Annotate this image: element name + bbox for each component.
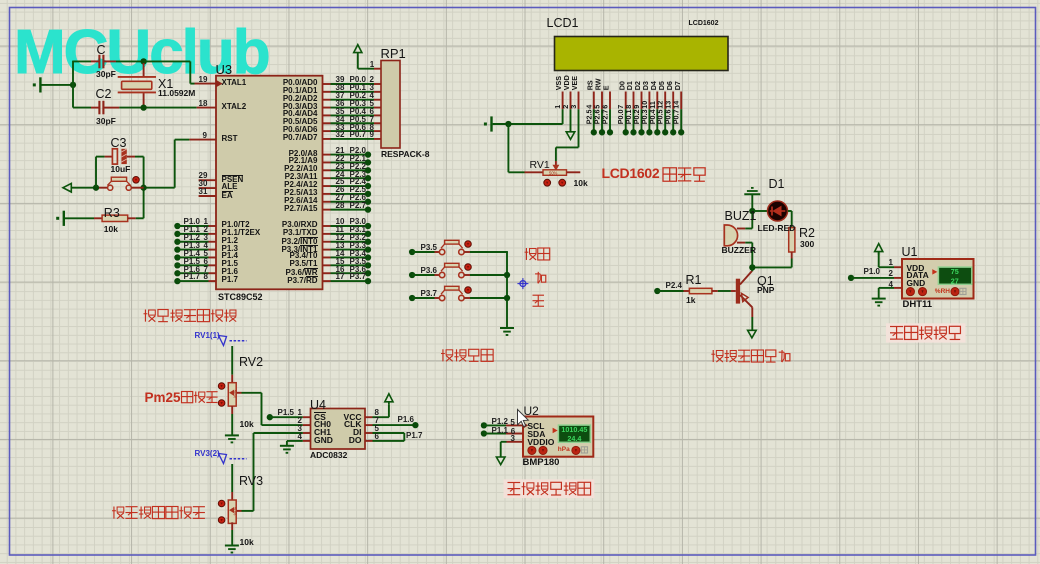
svg-text:50%: 50%: [549, 171, 558, 176]
svg-text:75: 75: [951, 267, 959, 276]
svg-text:14: 14: [672, 101, 681, 109]
svg-text:24.4: 24.4: [567, 434, 581, 443]
svg-text:P2.7: P2.7: [601, 110, 610, 125]
svg-text:P0.7: P0.7: [672, 110, 681, 125]
svg-text:D7: D7: [673, 81, 682, 90]
svg-text:27: 27: [951, 277, 959, 286]
svg-text:E: E: [602, 85, 611, 90]
svg-text:6: 6: [601, 105, 610, 109]
svg-text:VEE: VEE: [570, 76, 579, 91]
svg-text:3: 3: [569, 105, 578, 109]
